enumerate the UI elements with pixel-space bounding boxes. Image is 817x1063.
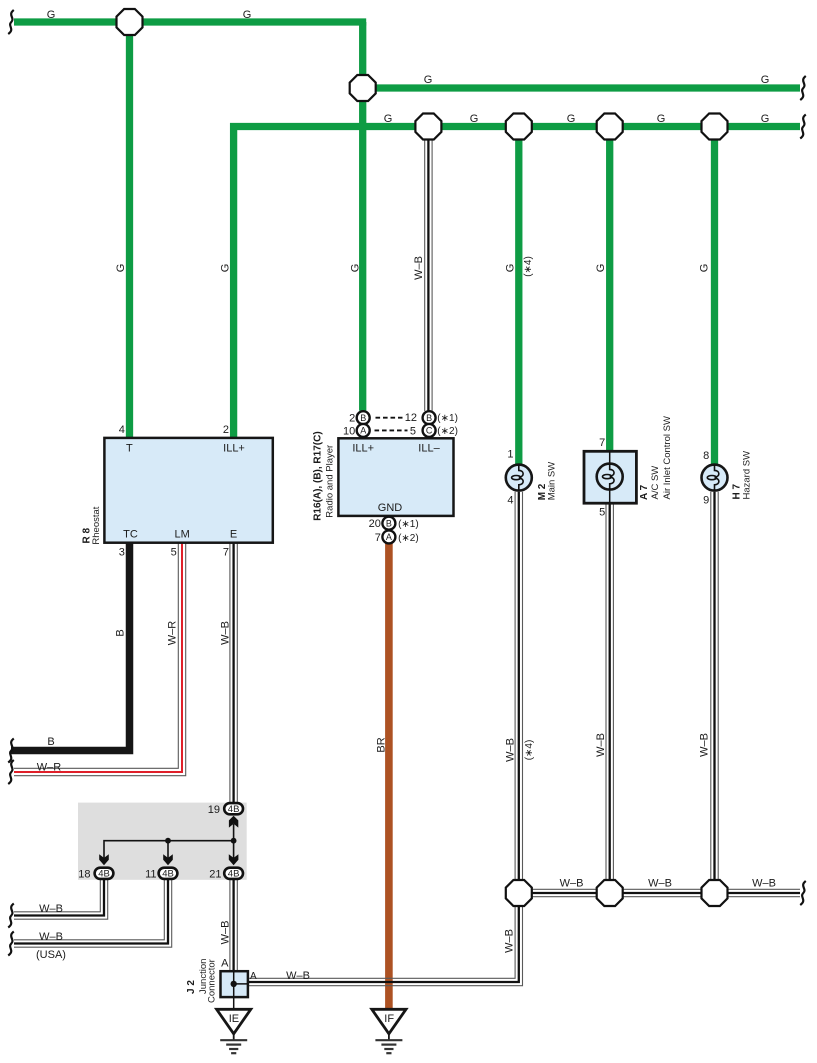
wire G vertical to R8 pin T	[126, 22, 133, 438]
svg-text:(∗4): (∗4)	[523, 256, 534, 277]
svg-text:4B: 4B	[228, 804, 240, 815]
svg-text:B: B	[47, 736, 54, 748]
svg-text:7: 7	[599, 437, 605, 449]
svg-text:W–B: W–B	[219, 621, 231, 645]
svg-text:G: G	[47, 9, 56, 21]
svg-text:A: A	[221, 957, 229, 969]
svg-text:G: G	[115, 264, 127, 273]
J2 internal wire lines	[234, 971, 248, 997]
svg-text:W–R: W–R	[166, 621, 178, 646]
svg-text:E: E	[230, 529, 237, 541]
svg-text:4B: 4B	[98, 869, 110, 880]
svg-text:G: G	[699, 264, 711, 273]
svg-text:4: 4	[119, 424, 125, 436]
radio pin circle B left	[357, 411, 370, 424]
svg-text:1: 1	[507, 449, 513, 461]
ground lead below J2	[233, 997, 235, 1009]
wire W-B from octagon to radio ILL-	[425, 127, 432, 412]
svg-text:21: 21	[209, 868, 221, 880]
svg-text:W–R: W–R	[37, 761, 62, 773]
arrow down to 21	[229, 854, 239, 865]
wire W-B from octagon down and left into J2	[248, 907, 523, 986]
wire G vertical to A7 A/C SW	[606, 127, 613, 452]
radio pin circle C right	[423, 424, 436, 437]
svg-text:W–B: W–B	[752, 877, 776, 889]
arrow down to 11	[163, 854, 173, 865]
box pin names	[123, 443, 440, 1026]
component R16/R17 radio and player box	[338, 438, 453, 516]
lamp symbol H7	[702, 465, 728, 491]
dashed link pins row2	[375, 429, 408, 431]
wire BR brown from radio GND to ground IF	[385, 544, 393, 1010]
node octagon bottom a	[506, 880, 532, 906]
lamp symbol A7	[597, 451, 623, 503]
svg-text:5: 5	[410, 425, 416, 437]
svg-text:ILL+: ILL+	[223, 443, 245, 455]
wire W-B from R8 pin E down to junction 19	[230, 542, 237, 803]
svg-text:Air Inlet Control SW: Air Inlet Control SW	[662, 416, 673, 499]
wire W-B from H7 down to octagon row	[711, 492, 718, 880]
svg-text:T: T	[126, 443, 133, 455]
svg-text:12: 12	[405, 412, 417, 424]
svg-text:W–B: W–B	[413, 256, 425, 280]
svg-text:(∗2): (∗2)	[437, 426, 458, 437]
lamp symbol M2	[506, 465, 532, 491]
svg-text:5: 5	[599, 507, 605, 519]
junction 18 4B oval	[95, 868, 114, 879]
node octagon row3 a	[415, 114, 441, 140]
wire W-B bottom horizontal bus	[519, 889, 800, 896]
svg-text:Connector: Connector	[207, 959, 218, 1003]
node octagon bottom c	[702, 880, 728, 906]
wire W-R from R8 pin LM to left edge	[14, 542, 186, 776]
svg-text:W–B: W–B	[595, 733, 607, 757]
wire G third horizontal run with drop to R8 ILL+	[234, 127, 800, 439]
internal bus line	[104, 841, 234, 858]
svg-text:W–B: W–B	[219, 921, 231, 945]
node octagon bottom b	[597, 880, 623, 906]
bus junction dots	[165, 838, 171, 844]
radio pin circle B right	[423, 411, 436, 424]
wire G top horizontal run	[14, 18, 366, 25]
radio pin circle A gnd	[382, 530, 395, 543]
ground IE	[217, 1009, 251, 1053]
svg-text:G: G	[384, 113, 393, 125]
node octagon row2	[350, 75, 376, 101]
svg-text:G: G	[243, 9, 252, 21]
svg-text:IE: IE	[229, 1013, 239, 1025]
svg-text:(∗1): (∗1)	[437, 413, 458, 424]
wire G vertical to H7 hazard SW	[711, 127, 718, 465]
svg-text:G: G	[657, 113, 666, 125]
star notes	[250, 413, 458, 982]
svg-text:4B: 4B	[228, 869, 240, 880]
svg-text:B: B	[360, 413, 366, 423]
wire labels vertical	[114, 256, 710, 953]
junction block shaded area	[78, 803, 247, 880]
wire G vertical to M2 main SW	[515, 127, 522, 465]
svg-text:4: 4	[507, 494, 513, 506]
svg-text:Radio and Player: Radio and Player	[324, 445, 335, 518]
svg-text:2: 2	[349, 412, 355, 424]
arrow up to 19	[229, 816, 238, 828]
svg-text:18: 18	[78, 868, 90, 880]
svg-text:W–B: W–B	[39, 931, 63, 943]
svg-text:TC: TC	[123, 529, 138, 541]
svg-text:ILL–: ILL–	[418, 443, 440, 455]
component name labels	[81, 416, 752, 1003]
4B oval labels	[98, 804, 239, 879]
svg-text:10: 10	[343, 425, 355, 437]
svg-text:W–B: W–B	[286, 970, 310, 982]
svg-text:G: G	[761, 113, 770, 125]
component A7 A/C SW box	[584, 451, 636, 503]
svg-text:11: 11	[145, 868, 156, 880]
svg-text:B: B	[114, 629, 126, 636]
pin letters in circles	[360, 413, 433, 542]
svg-text:G: G	[470, 113, 479, 125]
wire W-B from M2 down to octagon row	[515, 492, 522, 880]
svg-text:G: G	[219, 264, 231, 273]
link line from arrow to bus	[233, 824, 235, 841]
svg-text:19: 19	[208, 804, 220, 816]
svg-text:G: G	[424, 74, 433, 86]
svg-text:B: B	[386, 518, 392, 528]
svg-text:W–B: W–B	[39, 903, 63, 915]
svg-text:4B: 4B	[162, 869, 174, 880]
svg-text:BR: BR	[375, 737, 387, 752]
svg-text:A: A	[360, 426, 366, 436]
J2 junction dot	[231, 981, 237, 987]
wire G vertical from top run down to radio ILL+	[359, 22, 366, 411]
svg-text:GND: GND	[378, 502, 403, 514]
svg-text:W–B: W–B	[503, 929, 515, 953]
wire W-B from junction 18 to left edge	[14, 880, 108, 920]
svg-text:G: G	[595, 264, 607, 273]
svg-text:Main SW: Main SW	[546, 462, 557, 501]
svg-text:(∗4): (∗4)	[524, 740, 535, 761]
node octagon row3 b	[506, 114, 532, 140]
svg-text:7: 7	[375, 532, 381, 544]
svg-text:A/C SW: A/C SW	[650, 466, 661, 500]
svg-text:9: 9	[703, 494, 709, 506]
wire G second horizontal run	[363, 84, 800, 91]
ground IF	[372, 1009, 406, 1053]
svg-text:LM: LM	[175, 529, 190, 541]
svg-text:3: 3	[119, 547, 125, 559]
svg-text:W–B: W–B	[648, 877, 672, 889]
svg-text:(∗1): (∗1)	[398, 519, 419, 530]
svg-text:C: C	[426, 426, 433, 436]
svg-text:5: 5	[171, 547, 177, 559]
wire W-B from junction 21 down to J2	[230, 880, 237, 972]
wire B black from R8 TC to left edge	[11, 542, 130, 751]
svg-text:20: 20	[369, 518, 381, 530]
arrow down to 18	[99, 854, 109, 865]
component J2 junction connector box	[221, 971, 248, 997]
junction 11 4B oval	[159, 868, 178, 879]
svg-text:A: A	[386, 532, 392, 542]
wire W-B (USA) from junction 11 to left edge	[14, 880, 172, 948]
svg-text:Rheostat: Rheostat	[91, 506, 102, 544]
dashed link pins row1	[376, 417, 403, 419]
node octagon top-left	[117, 9, 143, 35]
svg-text:G: G	[350, 264, 362, 273]
svg-text:B: B	[426, 413, 432, 423]
component R8 rheostat box	[104, 438, 272, 543]
svg-text:(USA): (USA)	[36, 949, 66, 961]
svg-text:W–B: W–B	[560, 877, 584, 889]
wire W-B from A7 down to octagon row	[606, 503, 613, 879]
svg-text:G: G	[505, 264, 517, 273]
svg-text:J 2: J 2	[186, 980, 197, 994]
svg-text:7: 7	[223, 547, 229, 559]
svg-text:W–B: W–B	[699, 733, 711, 757]
node octagon row3 c	[597, 114, 623, 140]
svg-text:A: A	[250, 971, 257, 982]
svg-text:8: 8	[703, 450, 709, 462]
svg-text:ILL+: ILL+	[352, 443, 374, 455]
svg-text:2: 2	[223, 424, 229, 436]
svg-text:W–B: W–B	[505, 738, 517, 762]
svg-text:Hazard SW: Hazard SW	[741, 451, 752, 500]
svg-text:G: G	[567, 113, 576, 125]
svg-text:IF: IF	[384, 1013, 394, 1025]
node octagon row3 d	[702, 114, 728, 140]
svg-text:G: G	[761, 74, 770, 86]
radio pin circle B gnd	[382, 517, 395, 530]
svg-text:A 7: A 7	[639, 484, 650, 500]
radio pin circle A left	[357, 424, 370, 437]
svg-text:(∗2): (∗2)	[398, 533, 419, 544]
svg-text:R16(A), (B), R17(C): R16(A), (B), R17(C)	[313, 431, 324, 520]
junction 21 4B oval	[224, 868, 243, 879]
junction 19 4B oval	[224, 803, 243, 814]
